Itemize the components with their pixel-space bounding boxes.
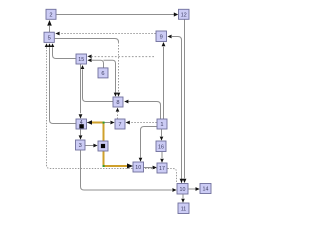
svg-text:6: 6	[101, 71, 104, 77]
svg-text:17: 17	[159, 166, 165, 172]
svg-text:2: 2	[49, 12, 52, 18]
svg-text:12: 12	[181, 12, 187, 18]
svg-text:15: 15	[78, 57, 84, 63]
svg-text:9: 9	[160, 34, 163, 40]
svg-text:10: 10	[180, 187, 186, 193]
svg-text:3: 3	[79, 143, 82, 149]
svg-text:1: 1	[160, 122, 163, 128]
svg-text:14: 14	[203, 187, 209, 193]
svg-text:7: 7	[118, 122, 121, 128]
svg-text:4: 4	[80, 120, 83, 126]
svg-text:10: 10	[135, 165, 141, 171]
svg-text:11: 11	[181, 206, 187, 212]
svg-text:8: 8	[116, 100, 119, 106]
svg-text:16: 16	[158, 144, 164, 150]
svg-text:5: 5	[48, 35, 51, 41]
